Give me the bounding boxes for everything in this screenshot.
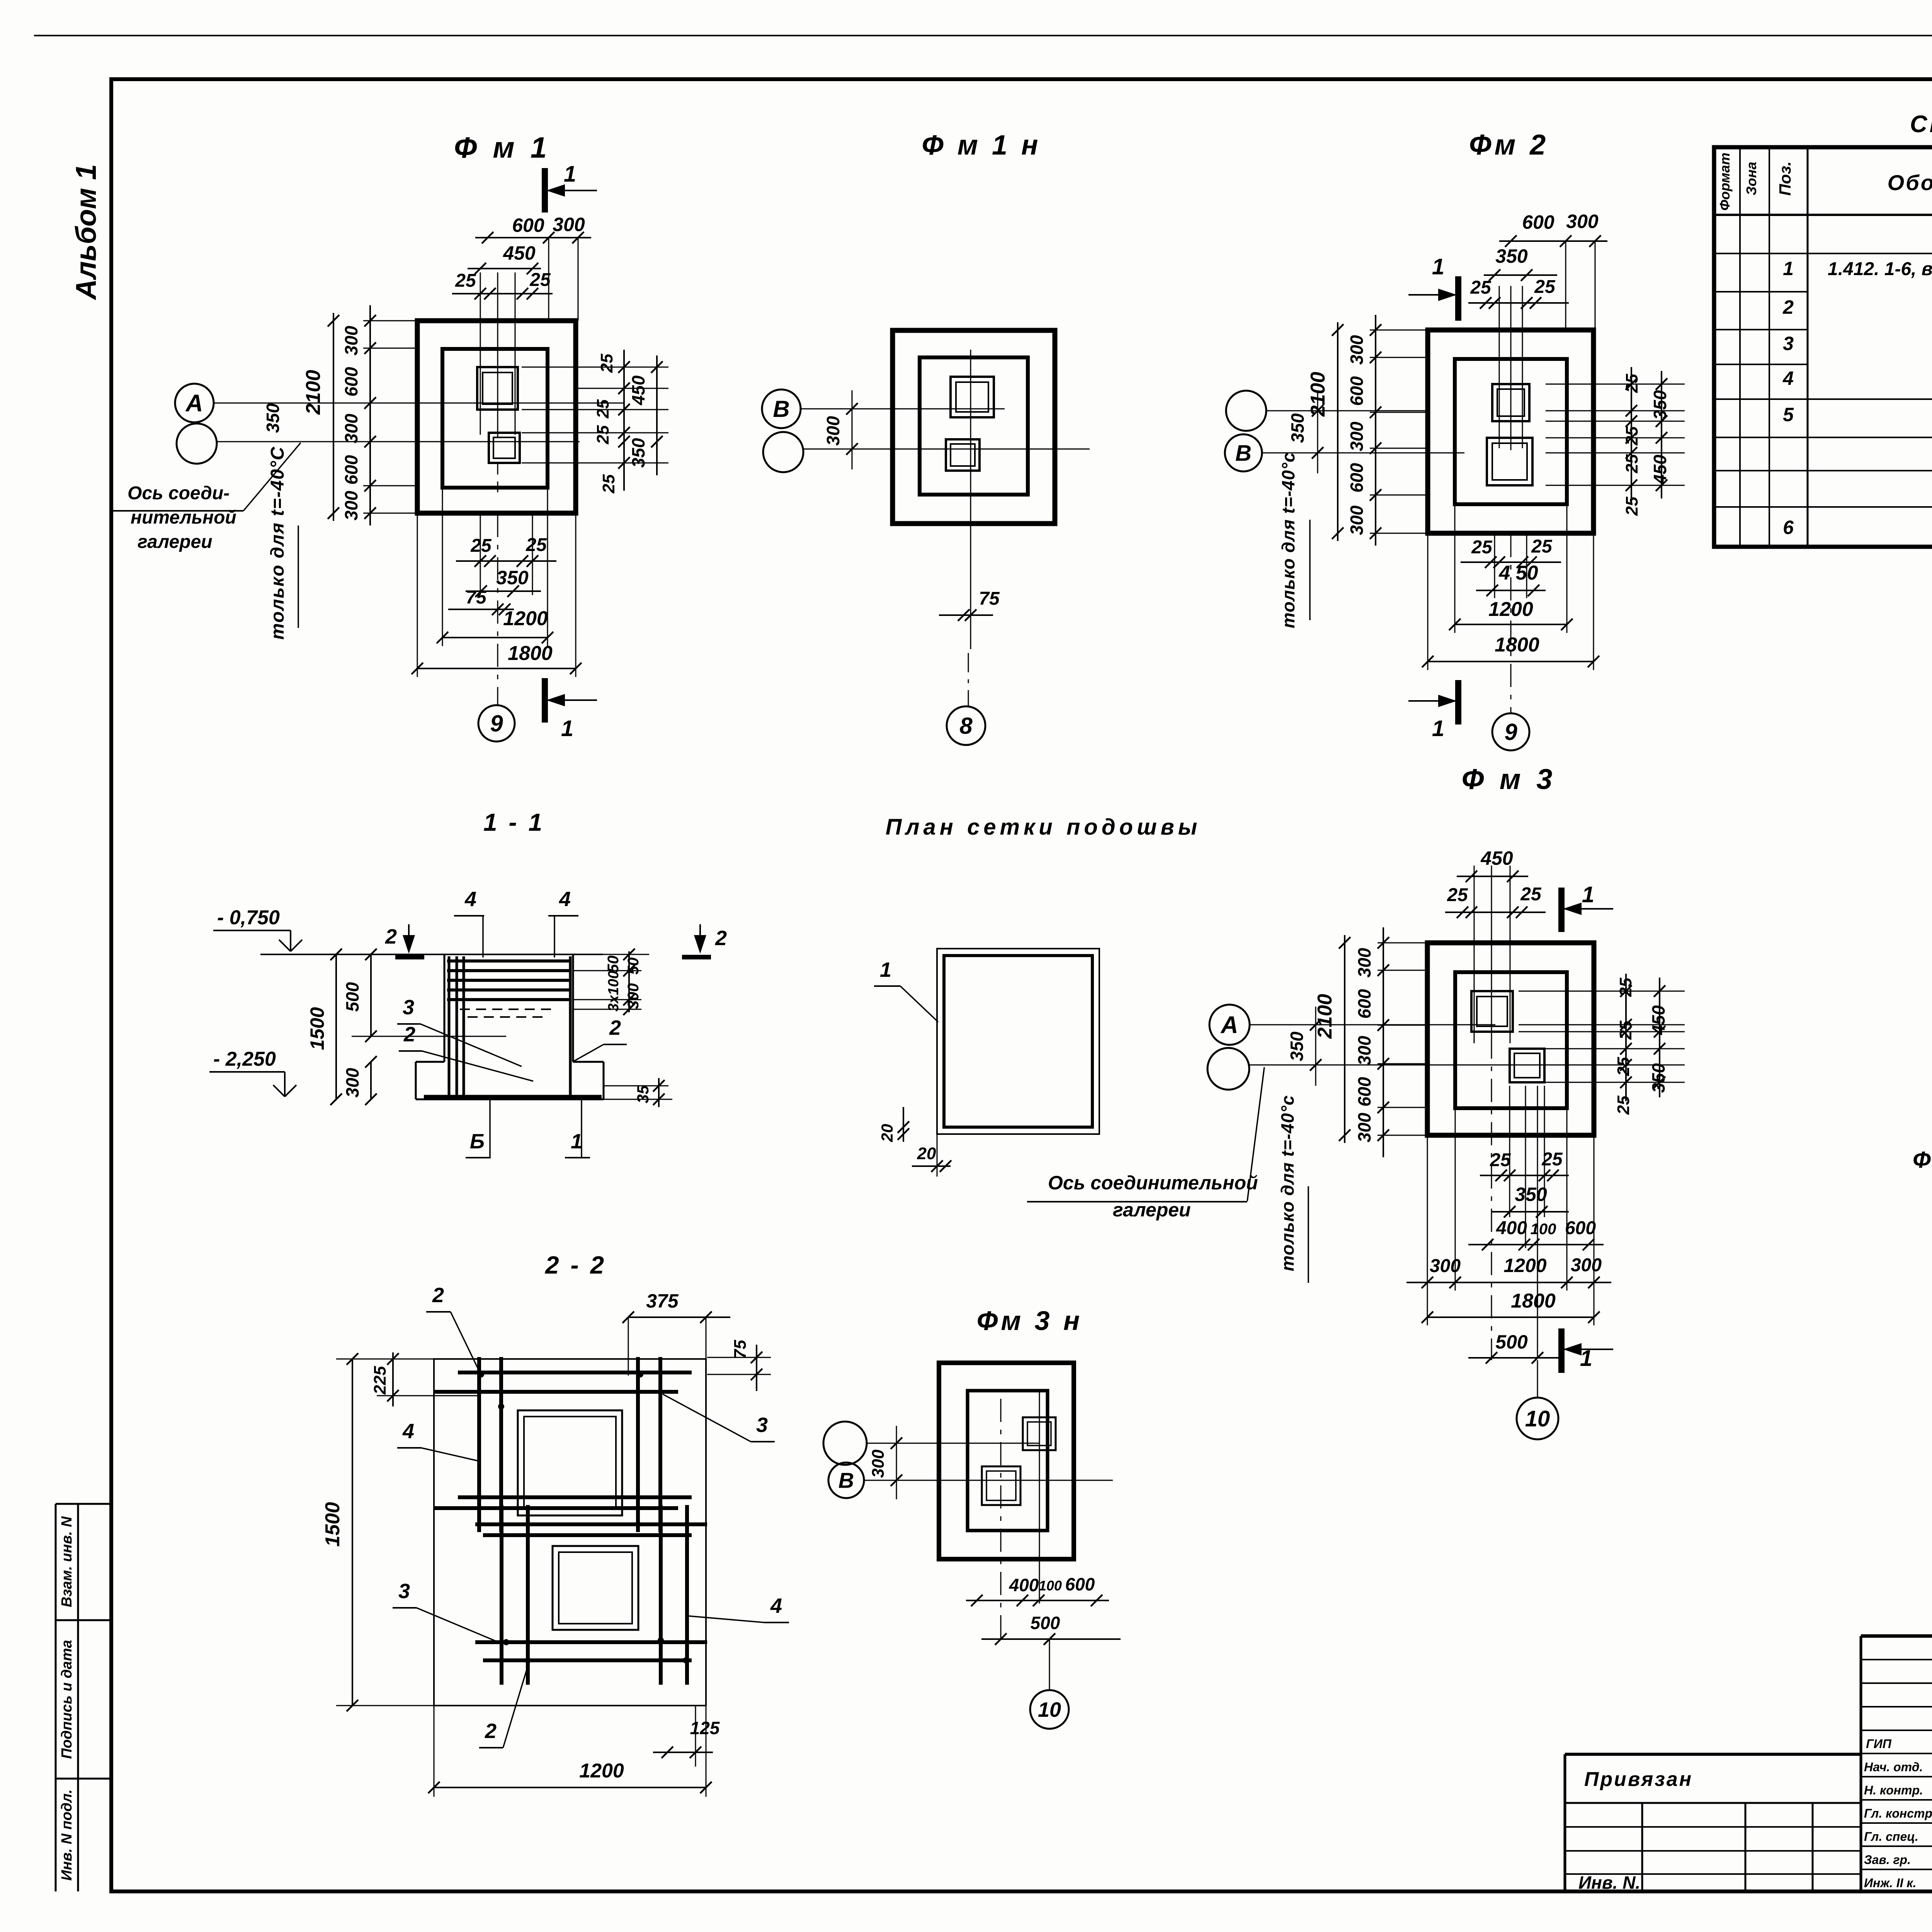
Fm1 lower column square xyxy=(489,433,520,463)
svg-text:Инв. N.: Инв. N. xyxy=(1578,1872,1640,1893)
Fm3 350 axis gap dimension xyxy=(1315,1007,1316,1086)
svg-text:1800: 1800 xyxy=(508,642,553,665)
svg-text:350: 350 xyxy=(496,567,529,588)
svg-text:500: 500 xyxy=(1495,1331,1528,1353)
axis circle 10 below Fm3 xyxy=(1537,1360,1538,1398)
svg-text:300: 300 xyxy=(1347,505,1367,535)
svg-text:300: 300 xyxy=(341,326,361,355)
section 1-1 right side small dims xyxy=(573,954,649,955)
svg-text:Альбом 1: Альбом 1 xyxy=(70,164,102,301)
svg-text:1200: 1200 xyxy=(1503,1255,1546,1276)
svg-text:4: 4 xyxy=(1782,367,1794,389)
svg-text:450: 450 xyxy=(503,242,536,264)
section 1-1 vertical rebars xyxy=(448,956,451,1097)
svg-text:25: 25 xyxy=(526,535,547,555)
svg-text:Зона: Зона xyxy=(1743,162,1759,196)
svg-text:300: 300 xyxy=(341,491,361,520)
svg-text:300: 300 xyxy=(823,416,843,446)
svg-text:375: 375 xyxy=(646,1290,679,1312)
svg-text:25: 25 xyxy=(470,536,492,556)
Fm1 left dimension chain xyxy=(363,320,417,321)
Fm2 lower column square xyxy=(1487,438,1532,485)
svg-text:2: 2 xyxy=(1782,296,1794,318)
svg-text:450: 450 xyxy=(628,375,648,405)
svg-text:Гл. спец.: Гл. спец. xyxy=(1864,1830,1918,1844)
svg-text:100: 100 xyxy=(1039,1578,1062,1594)
Fm3 left dimension chain xyxy=(1378,942,1427,944)
Fm3n inner slab square xyxy=(968,1391,1048,1531)
svg-text:2 - 2: 2 - 2 xyxy=(545,1251,606,1279)
svg-text:25: 25 xyxy=(1470,277,1492,298)
svg-text:350: 350 xyxy=(1650,390,1670,420)
Fm2 bolt extension lines below xyxy=(1494,534,1495,598)
svg-text:Ф м 1: Ф м 1 xyxy=(454,131,551,164)
Fm1 outer footing square xyxy=(417,321,576,513)
svg-text:Инв. N подл.: Инв. N подл. xyxy=(59,1789,75,1881)
svg-text:600: 600 xyxy=(1522,211,1554,233)
Fm3n outer footing square xyxy=(939,1363,1074,1559)
svg-text:Ф м 1 н: Ф м 1 н xyxy=(922,130,1041,161)
svg-text:25: 25 xyxy=(1616,1020,1635,1040)
svg-text:1: 1 xyxy=(564,162,576,187)
svg-text:Поз.: Поз. xyxy=(1776,162,1794,196)
svg-text:500: 500 xyxy=(1031,1613,1060,1633)
svg-text:только для t=-40°с: только для t=-40°с xyxy=(1277,1095,1298,1271)
Fm3 vertical axes xyxy=(1491,1036,1492,1360)
svg-text:галереи: галереи xyxy=(1113,1199,1191,1221)
Fm2 left dimension chain xyxy=(1370,330,1428,331)
svg-text:25: 25 xyxy=(1622,426,1641,446)
svg-text:25: 25 xyxy=(1534,277,1556,297)
svg-text:1: 1 xyxy=(1783,258,1794,279)
svg-text:600: 600 xyxy=(1354,1077,1374,1107)
svg-text:3: 3 xyxy=(403,996,414,1019)
svg-text:600: 600 xyxy=(1347,463,1367,493)
section 2-2 75 dimension xyxy=(707,1357,771,1358)
section 2-2 upper anchor square xyxy=(518,1410,622,1515)
section 1-1 1500 dimension xyxy=(335,954,337,1099)
Fm1 anchor bolt lines xyxy=(480,272,481,435)
svg-text:9: 9 xyxy=(490,711,503,736)
section 2-2 upper mesh horizontal bars xyxy=(458,1371,692,1374)
svg-text:1 - 1: 1 - 1 xyxy=(483,808,544,836)
axis circle 9 below Fm1 xyxy=(478,705,515,742)
svg-text:1: 1 xyxy=(880,958,891,981)
svg-text:500: 500 xyxy=(342,982,362,1012)
svg-text:25: 25 xyxy=(599,474,618,493)
svg-text:3: 3 xyxy=(398,1580,410,1603)
svg-text:20: 20 xyxy=(878,1124,896,1143)
axis circle (blank) of Fm2 xyxy=(1226,391,1266,431)
Fm2 anchor bolt lines xyxy=(1499,286,1500,448)
svg-text:300: 300 xyxy=(1354,948,1374,978)
svg-text:2: 2 xyxy=(715,927,727,950)
svg-text:Фундаменты расположены на л: Фундаменты расположены на листе 4. xyxy=(1913,1147,1932,1173)
Fm1n 300 axis gap dimension xyxy=(852,390,853,469)
Fm3n 300 axis gap dimension xyxy=(896,1426,897,1499)
svg-text:25: 25 xyxy=(1520,884,1542,905)
Fm2 section mark top xyxy=(1455,276,1461,321)
svg-text:600: 600 xyxy=(512,214,544,236)
section 2-2 node dots xyxy=(478,1371,484,1378)
svg-text:400: 400 xyxy=(1496,1218,1527,1238)
svg-text:Инж. II к.: Инж. II к. xyxy=(1864,1876,1916,1890)
svg-text:- 0,750: - 0,750 xyxy=(217,906,280,929)
Fm1 overall 2100 dimension xyxy=(333,313,334,521)
Fm3 section mark top xyxy=(1558,888,1565,932)
svg-text:1500: 1500 xyxy=(321,1502,344,1547)
svg-text:6: 6 xyxy=(1783,517,1794,538)
svg-text:1: 1 xyxy=(561,716,573,741)
Fm3 column extension lines below xyxy=(1509,1086,1510,1217)
Fm2 upper column square xyxy=(1492,384,1529,421)
axis circle (blank) of Fm3 xyxy=(1207,1048,1249,1090)
axis circle A of Fm1 xyxy=(175,384,214,422)
svg-text:300: 300 xyxy=(625,983,642,1009)
section 2-2 225 dimension xyxy=(392,1352,394,1406)
svg-text:25: 25 xyxy=(1614,1057,1633,1076)
svg-text:100: 100 xyxy=(1531,1221,1556,1238)
Fm3 inner slab square xyxy=(1455,972,1567,1108)
section 2-2 footing outline xyxy=(434,1359,706,1706)
svg-text:1.412. 1-6, вып. 2: 1.412. 1-6, вып. 2 xyxy=(1828,259,1932,279)
svg-text:25: 25 xyxy=(455,270,476,291)
sole mesh plan square xyxy=(937,949,1099,1134)
svg-text:4: 4 xyxy=(559,888,571,911)
section 2-2 lower mesh vertical bars xyxy=(500,1505,503,1685)
outer thin border top xyxy=(34,35,1932,36)
Fm1 section mark top xyxy=(542,168,548,213)
axis circle B of Fm3n xyxy=(828,1463,864,1498)
svg-text:350: 350 xyxy=(1648,1063,1668,1093)
svg-text:3x100: 3x100 xyxy=(605,971,622,1012)
section 1-1 column outline xyxy=(444,954,446,1062)
svg-text:1800: 1800 xyxy=(1511,1290,1556,1312)
section 1-1 footing outline xyxy=(416,1061,444,1063)
svg-text:1500: 1500 xyxy=(306,1007,328,1050)
svg-text:4: 4 xyxy=(402,1420,414,1443)
svg-text:25: 25 xyxy=(594,425,612,444)
svg-text:В: В xyxy=(773,396,789,422)
svg-text:3: 3 xyxy=(756,1413,768,1437)
Fm2 section mark bottom xyxy=(1455,680,1461,724)
svg-text:Ось соеди-: Ось соеди- xyxy=(128,483,230,503)
title block signature table xyxy=(1860,1636,1862,1891)
svg-text:300: 300 xyxy=(342,1068,362,1097)
svg-text:450: 450 xyxy=(1480,847,1513,869)
Fm3n lower column square xyxy=(982,1466,1020,1505)
svg-text:10: 10 xyxy=(1525,1406,1550,1431)
svg-text:25: 25 xyxy=(594,399,612,418)
Fm3 upper column square xyxy=(1471,991,1513,1032)
svg-text:10: 10 xyxy=(1038,1698,1061,1721)
svg-text:35: 35 xyxy=(634,1085,652,1103)
Fm3n upper column square xyxy=(1023,1417,1056,1450)
svg-text:300: 300 xyxy=(1347,335,1367,365)
Fm1n vertical axis xyxy=(970,350,971,649)
specification table grid xyxy=(1714,147,1932,547)
svg-text:Формат: Формат xyxy=(1717,153,1733,211)
section 2-2 lower anchor square xyxy=(553,1546,638,1630)
svg-text:350: 350 xyxy=(263,403,283,433)
axis circle B of Fm1n xyxy=(762,389,801,428)
svg-text:В: В xyxy=(1235,440,1252,466)
svg-text:75: 75 xyxy=(731,1340,750,1359)
svg-text:300: 300 xyxy=(1430,1256,1461,1276)
svg-text:50: 50 xyxy=(605,956,622,973)
svg-text:2: 2 xyxy=(385,925,397,948)
svg-text:2100: 2100 xyxy=(1314,994,1336,1039)
Fm1n lower column square xyxy=(946,439,980,471)
svg-text:25: 25 xyxy=(1447,885,1468,905)
Fm1 centre axis down to circle 9 xyxy=(497,514,498,705)
Fm1n upper column square xyxy=(951,377,994,417)
svg-text:1: 1 xyxy=(1432,716,1444,741)
svg-text:1800: 1800 xyxy=(1495,634,1539,656)
svg-text:25: 25 xyxy=(1622,374,1641,393)
section 2-2 lower mesh horizontal bars xyxy=(475,1522,707,1526)
svg-text:4: 4 xyxy=(770,1594,782,1617)
svg-text:Гл. констр.: Гл. констр. xyxy=(1864,1806,1932,1820)
svg-text:только для t=-40°с: только для t=-40°с xyxy=(1278,452,1298,628)
svg-text:300: 300 xyxy=(1347,422,1367,451)
Fm1n inner slab square xyxy=(920,357,1028,495)
svg-text:Ось соединительной: Ось соединительной xyxy=(1048,1172,1258,1194)
svg-text:План сетки подошвы: План сетки подошвы xyxy=(886,815,1201,840)
axis circle (blank) of Fm1n xyxy=(763,432,803,472)
svg-text:Ф м 3: Ф м 3 xyxy=(1462,763,1556,795)
svg-text:300: 300 xyxy=(1566,211,1599,232)
svg-text:2: 2 xyxy=(609,1016,621,1039)
svg-text:2: 2 xyxy=(432,1284,444,1307)
svg-text:400: 400 xyxy=(1009,1575,1039,1595)
svg-text:20: 20 xyxy=(917,1144,936,1163)
svg-text:25: 25 xyxy=(1471,537,1493,558)
svg-text:75: 75 xyxy=(979,588,1000,609)
sole mesh 20 dims xyxy=(937,1134,938,1177)
svg-text:350: 350 xyxy=(1287,1031,1307,1061)
svg-text:Нач. отд.: Нач. отд. xyxy=(1864,1760,1923,1774)
Fm3 right side dimensions xyxy=(1519,991,1685,992)
svg-text:Фм 3 н: Фм 3 н xyxy=(977,1306,1083,1336)
Fm1 upper column square xyxy=(477,367,518,410)
Fm3 outer footing square xyxy=(1427,943,1594,1135)
left margin stamp strip xyxy=(55,1504,57,1891)
axis circle 8 below Fm1n xyxy=(947,706,985,745)
svg-text:300: 300 xyxy=(553,214,585,235)
svg-text:8: 8 xyxy=(959,713,973,739)
svg-text:75: 75 xyxy=(466,587,487,608)
svg-text:Н. контр.: Н. контр. xyxy=(1864,1783,1923,1797)
svg-text:600: 600 xyxy=(341,367,361,396)
svg-text:2: 2 xyxy=(403,1023,415,1046)
svg-text:А: А xyxy=(1220,1012,1238,1039)
Fm2 overall 2100 dimension xyxy=(1337,322,1338,541)
section 2-2 upper mesh vertical bars xyxy=(477,1357,481,1532)
svg-text:25: 25 xyxy=(1622,497,1641,516)
axis circle B of Fm2 xyxy=(1225,434,1262,471)
svg-text:600: 600 xyxy=(1354,989,1374,1019)
svg-text:Привязан: Привязан xyxy=(1584,1768,1693,1791)
svg-text:25: 25 xyxy=(1614,1095,1633,1115)
svg-text:5: 5 xyxy=(1783,404,1794,425)
svg-text:300: 300 xyxy=(1354,1112,1374,1142)
svg-text:350: 350 xyxy=(628,438,648,468)
section 1-1 ground line xyxy=(260,954,603,955)
Fm1 inner slab square xyxy=(442,349,548,488)
axis circle 9 below Fm2 xyxy=(1492,713,1529,750)
svg-text:- 2,250: - 2,250 xyxy=(213,1048,276,1070)
svg-text:600: 600 xyxy=(341,455,361,485)
svg-text:4 50: 4 50 xyxy=(1498,562,1538,584)
section 1-1 mesh horizontal rebars xyxy=(447,959,570,963)
svg-text:350: 350 xyxy=(1495,245,1528,267)
svg-text:А: А xyxy=(185,390,203,417)
svg-text:225: 225 xyxy=(371,1366,389,1395)
Fm2 350 axis gap dimension xyxy=(1317,392,1318,473)
svg-text:300: 300 xyxy=(341,413,361,443)
Fm3n vertical axes xyxy=(1000,1399,1002,1646)
svg-text:4: 4 xyxy=(464,888,476,911)
svg-text:600: 600 xyxy=(1347,376,1367,406)
svg-text:450: 450 xyxy=(1648,1005,1668,1035)
svg-text:350: 350 xyxy=(1515,1184,1547,1205)
svg-text:25: 25 xyxy=(1541,1149,1563,1170)
axis circle (blank) of Fm1 xyxy=(177,423,217,464)
svg-text:300: 300 xyxy=(1354,1036,1374,1065)
svg-text:Взам. инв. N: Взам. инв. N xyxy=(59,1516,75,1607)
Fm1n outer footing square xyxy=(893,330,1055,524)
svg-text:1200: 1200 xyxy=(503,607,548,630)
Fm2 inner slab square xyxy=(1455,359,1567,504)
svg-text:2: 2 xyxy=(485,1719,497,1743)
axis circle A of Fm3 xyxy=(1209,1005,1250,1045)
svg-text:1200: 1200 xyxy=(579,1760,624,1782)
Fm1 right side dimensions xyxy=(522,367,668,368)
svg-text:25: 25 xyxy=(1490,1150,1511,1170)
svg-text:50: 50 xyxy=(625,957,642,975)
section 1-1 500/300 chain xyxy=(370,954,372,1036)
section 1-1 bottom mesh bar xyxy=(424,1095,602,1099)
svg-text:350: 350 xyxy=(1287,413,1308,443)
svg-text:Фм 2: Фм 2 xyxy=(1469,129,1549,161)
svg-text:только для t=-40°С: только для t=-40°С xyxy=(267,446,288,639)
svg-text:300: 300 xyxy=(1571,1255,1602,1276)
svg-text:ГИП: ГИП xyxy=(1866,1737,1892,1751)
svg-text:1: 1 xyxy=(1432,254,1444,279)
section 1-1 dim 35 xyxy=(604,1085,668,1087)
svg-text:1: 1 xyxy=(1582,882,1594,907)
svg-text:Подпись и дата: Подпись и дата xyxy=(59,1640,75,1759)
svg-text:галереи: галереи xyxy=(138,532,213,552)
axis circle (blank) of Fm3n xyxy=(823,1422,867,1465)
Fm2 centre axis down to circle 9 xyxy=(1510,534,1512,713)
Fm1 section mark bottom xyxy=(542,678,548,723)
svg-text:25: 25 xyxy=(1622,454,1641,473)
svg-text:25: 25 xyxy=(597,354,616,373)
privyazan table xyxy=(1564,1754,1566,1891)
Fm3 section mark bottom xyxy=(1558,1328,1565,1373)
Fm3 overall 2100 dimension xyxy=(1344,935,1345,1143)
svg-text:600: 600 xyxy=(1065,1574,1095,1594)
axis circle 10 below Fm3n xyxy=(1049,1639,1050,1690)
svg-text:9: 9 xyxy=(1504,719,1517,745)
svg-text:600: 600 xyxy=(1565,1218,1596,1238)
svg-text:25: 25 xyxy=(1531,536,1553,557)
Fm2 right side dimensions xyxy=(1546,384,1685,385)
svg-text:300: 300 xyxy=(869,1449,888,1478)
svg-text:Обозначение: Обозначение xyxy=(1888,170,1932,195)
svg-text:25: 25 xyxy=(529,270,551,290)
svg-text:Б: Б xyxy=(470,1130,485,1153)
svg-text:1: 1 xyxy=(571,1130,582,1153)
svg-text:Спецификация монолитных фунд: Спецификация монолитных фундаментов xyxy=(1910,111,1932,138)
svg-text:1: 1 xyxy=(1580,1346,1592,1371)
svg-text:125: 125 xyxy=(690,1718,720,1738)
svg-text:2100: 2100 xyxy=(302,370,325,415)
Fm3 lower column square xyxy=(1510,1049,1544,1082)
svg-text:В: В xyxy=(838,1468,854,1493)
svg-text:Зав. гр.: Зав. гр. xyxy=(1864,1853,1911,1867)
Fm3 anchor bolt lines xyxy=(1474,866,1475,1043)
Fm2 outer footing square xyxy=(1428,330,1594,533)
svg-text:25: 25 xyxy=(1616,978,1635,997)
svg-text:450: 450 xyxy=(1650,454,1670,485)
section 2-2 1500 dimension xyxy=(352,1359,353,1706)
svg-text:3: 3 xyxy=(1783,333,1794,354)
